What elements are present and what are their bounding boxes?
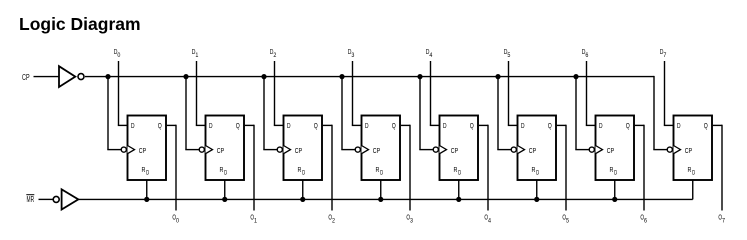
svg-text:2: 2 [332,218,335,225]
svg-text:2: 2 [273,52,276,59]
svg-text:CP: CP [529,146,536,155]
svg-text:6: 6 [585,52,588,59]
svg-text:D: D [443,121,447,130]
svg-text:Q: Q [236,121,240,130]
svg-text:7: 7 [722,218,725,225]
svg-text:D: D [692,170,695,177]
svg-text:0: 0 [117,52,120,59]
svg-text:CP: CP [685,146,692,155]
svg-text:1: 1 [195,52,198,59]
svg-text:Logic Diagram: Logic Diagram [19,14,141,34]
svg-text:D: D [287,121,291,130]
svg-text:MR: MR [27,195,35,204]
svg-text:1: 1 [254,218,257,225]
svg-text:Q: Q [158,121,162,130]
svg-text:D: D [521,121,525,130]
svg-text:4: 4 [429,52,432,59]
svg-text:7: 7 [663,52,666,59]
svg-text:CP: CP [607,146,614,155]
svg-text:Q: Q [704,121,708,130]
svg-text:D: D [458,170,461,177]
svg-text:4: 4 [488,218,491,225]
svg-text:D: D [224,170,227,177]
svg-text:0: 0 [176,218,179,225]
svg-text:D: D [302,170,305,177]
svg-text:Q: Q [548,121,552,130]
svg-text:CP: CP [295,146,302,155]
svg-text:D: D [536,170,539,177]
svg-text:Q: Q [314,121,318,130]
svg-text:D: D [599,121,603,130]
svg-text:CP: CP [139,146,146,155]
svg-text:6: 6 [644,218,647,225]
svg-text:Q: Q [470,121,474,130]
svg-text:D: D [614,170,617,177]
svg-text:5: 5 [566,218,569,225]
svg-text:D: D [146,170,149,177]
svg-text:Q: Q [626,121,630,130]
svg-text:5: 5 [507,52,510,59]
svg-text:D: D [131,121,135,130]
svg-text:3: 3 [410,218,413,225]
svg-text:CP: CP [451,146,458,155]
svg-text:D: D [677,121,681,130]
svg-text:3: 3 [351,52,354,59]
svg-text:D: D [365,121,369,130]
svg-text:D: D [380,170,383,177]
svg-text:CP: CP [217,146,224,155]
svg-text:D: D [209,121,213,130]
svg-text:CP: CP [22,73,30,82]
svg-text:CP: CP [373,146,380,155]
svg-text:Q: Q [392,121,396,130]
